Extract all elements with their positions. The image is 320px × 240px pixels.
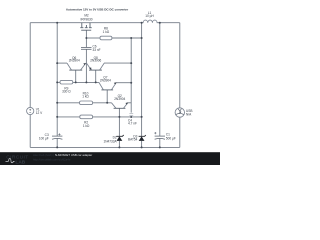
wire Q6 base vertical — [75, 70, 77, 82]
arrow Q2 emitter — [125, 102, 128, 104]
wire gate node vertical through C6 upper — [85, 30, 87, 47]
svg-text:http://circuitlab.com/c/v92a4e: http://circuitlab.com/c/v92a4e — [33, 158, 71, 162]
wire Q7 emitter to feedback vertical — [116, 82, 131, 84]
svg-text:500 µF: 500 µF — [166, 136, 176, 140]
wire voltmeter to bottom rail — [179, 117, 181, 147]
wire USB vertical from rail to voltmeter — [179, 23, 181, 108]
svg-text:1N4733A: 1N4733A — [103, 139, 117, 143]
wire left vertical from top rail to V1 — [29, 23, 31, 108]
capacitor C4 — [129, 113, 133, 115]
wire R8 right to switch vertical — [112, 37, 142, 39]
wire R2 left lead — [57, 116, 80, 118]
wire R9 line with bases — [57, 81, 60, 83]
logo waveform — [6, 159, 15, 163]
transistor Q6 — [67, 63, 86, 70]
arrow Q8 emitter — [89, 67, 91, 70]
wire R2 right lead to switch vertical — [93, 116, 142, 118]
resistor R8 — [100, 36, 112, 40]
wire Q8 collector line — [104, 62, 131, 64]
svg-text:1 kΩ: 1 kΩ — [82, 94, 89, 98]
svg-text:LAB: LAB — [15, 159, 25, 165]
resistor R10 — [80, 101, 93, 105]
svg-text:Alex Feb (fekb) | N-MOSFET USB: Alex Feb (fekb) | N-MOSFET USB car adapt… — [33, 153, 92, 157]
svg-text:10 µH: 10 µH — [145, 14, 154, 18]
plus sign C3 — [58, 133, 60, 135]
capacitor C6 — [81, 48, 92, 50]
diode D3 schottky — [139, 135, 146, 141]
wire feedback vertical from gate line to C4 — [130, 38, 132, 113]
mosfet M2 body — [80, 23, 91, 31]
wire D3 to bottom rail — [141, 141, 143, 148]
wire gate node vertical through C6 lower to emitters — [85, 49, 87, 82]
wire Q6 collector line — [57, 62, 67, 64]
transistor Q7 — [99, 82, 116, 90]
wire bottom rail — [30, 146, 180, 148]
wire gate line to R8 — [86, 37, 100, 39]
wire left vertical V1 to bottom rail — [29, 115, 31, 148]
resistor R9 — [60, 80, 73, 84]
wire C4 bottom stub — [130, 116, 132, 117]
wire Q8 base vertical — [95, 70, 97, 82]
wire second vertical x57 below C3 — [56, 139, 58, 148]
svg-text:2N3904: 2N3904 — [114, 97, 125, 101]
wire D2 vertical from R2 line to diode — [118, 117, 120, 136]
wire Q7 base vertical — [106, 90, 108, 103]
transistor Q8 — [87, 63, 105, 70]
wire top rail right of inductor — [158, 22, 180, 24]
svg-text:2N3904: 2N3904 — [100, 79, 111, 83]
plus sign C1 — [154, 132, 156, 134]
wire R9 right to Q7 collector — [73, 81, 99, 83]
svg-text:12 V: 12 V — [36, 111, 43, 115]
svg-text:1 kΩ: 1 kΩ — [103, 30, 110, 34]
svg-text:N/A: N/A — [186, 113, 192, 117]
svg-text:1 kΩ: 1 kΩ — [83, 124, 90, 128]
resistor R2 — [80, 115, 93, 119]
svg-text:4.7 nF: 4.7 nF — [128, 122, 137, 126]
svg-text:330 Ω: 330 Ω — [62, 90, 71, 94]
wire D2 to bottom rail — [118, 141, 120, 148]
voltage source V1 — [27, 107, 34, 114]
footer bar — [0, 152, 220, 165]
capacitor C1 polarized — [155, 136, 165, 139]
svg-text:IRF9630: IRF9630 — [80, 18, 92, 22]
wire R10 left lead — [57, 102, 79, 104]
wire Q2 base vertical — [118, 108, 120, 117]
plus minus V1 — [29, 109, 31, 113]
svg-text:Automotive 12V to 5V USB DC-DC: Automotive 12V to 5V USB DC-DC converter — [66, 7, 129, 11]
arrow Q7 emitter — [114, 82, 117, 84]
wire R10 right to Q2 collector — [93, 102, 112, 104]
svg-text:2N3904: 2N3904 — [69, 59, 80, 63]
wire second vertical x57 top rail to C3 — [56, 23, 58, 136]
transistor Q2 — [112, 103, 128, 109]
capacitor C3 polarized — [52, 136, 62, 139]
wire top rail — [30, 22, 141, 24]
wire output vertical from rail to C1 — [159, 23, 161, 136]
arrow Q6 emitter — [83, 63, 86, 65]
voltmeter USB — [175, 108, 184, 117]
voltmeter needle and V glyph — [176, 109, 184, 115]
inductor L1 — [142, 20, 159, 23]
wire C1 to bottom rail — [159, 139, 161, 148]
wire switch node vertical from rail to D3 — [141, 23, 143, 137]
junction dots — [56, 22, 161, 149]
svg-text:BAT54: BAT54 — [128, 137, 138, 141]
svg-text:33 nF: 33 nF — [93, 48, 101, 52]
svg-text:100 µF: 100 µF — [39, 137, 49, 141]
diode D2 zener — [116, 135, 123, 141]
svg-text:2N3906: 2N3906 — [90, 59, 101, 63]
wire Q2 emitter to feedback vertical — [128, 102, 132, 104]
